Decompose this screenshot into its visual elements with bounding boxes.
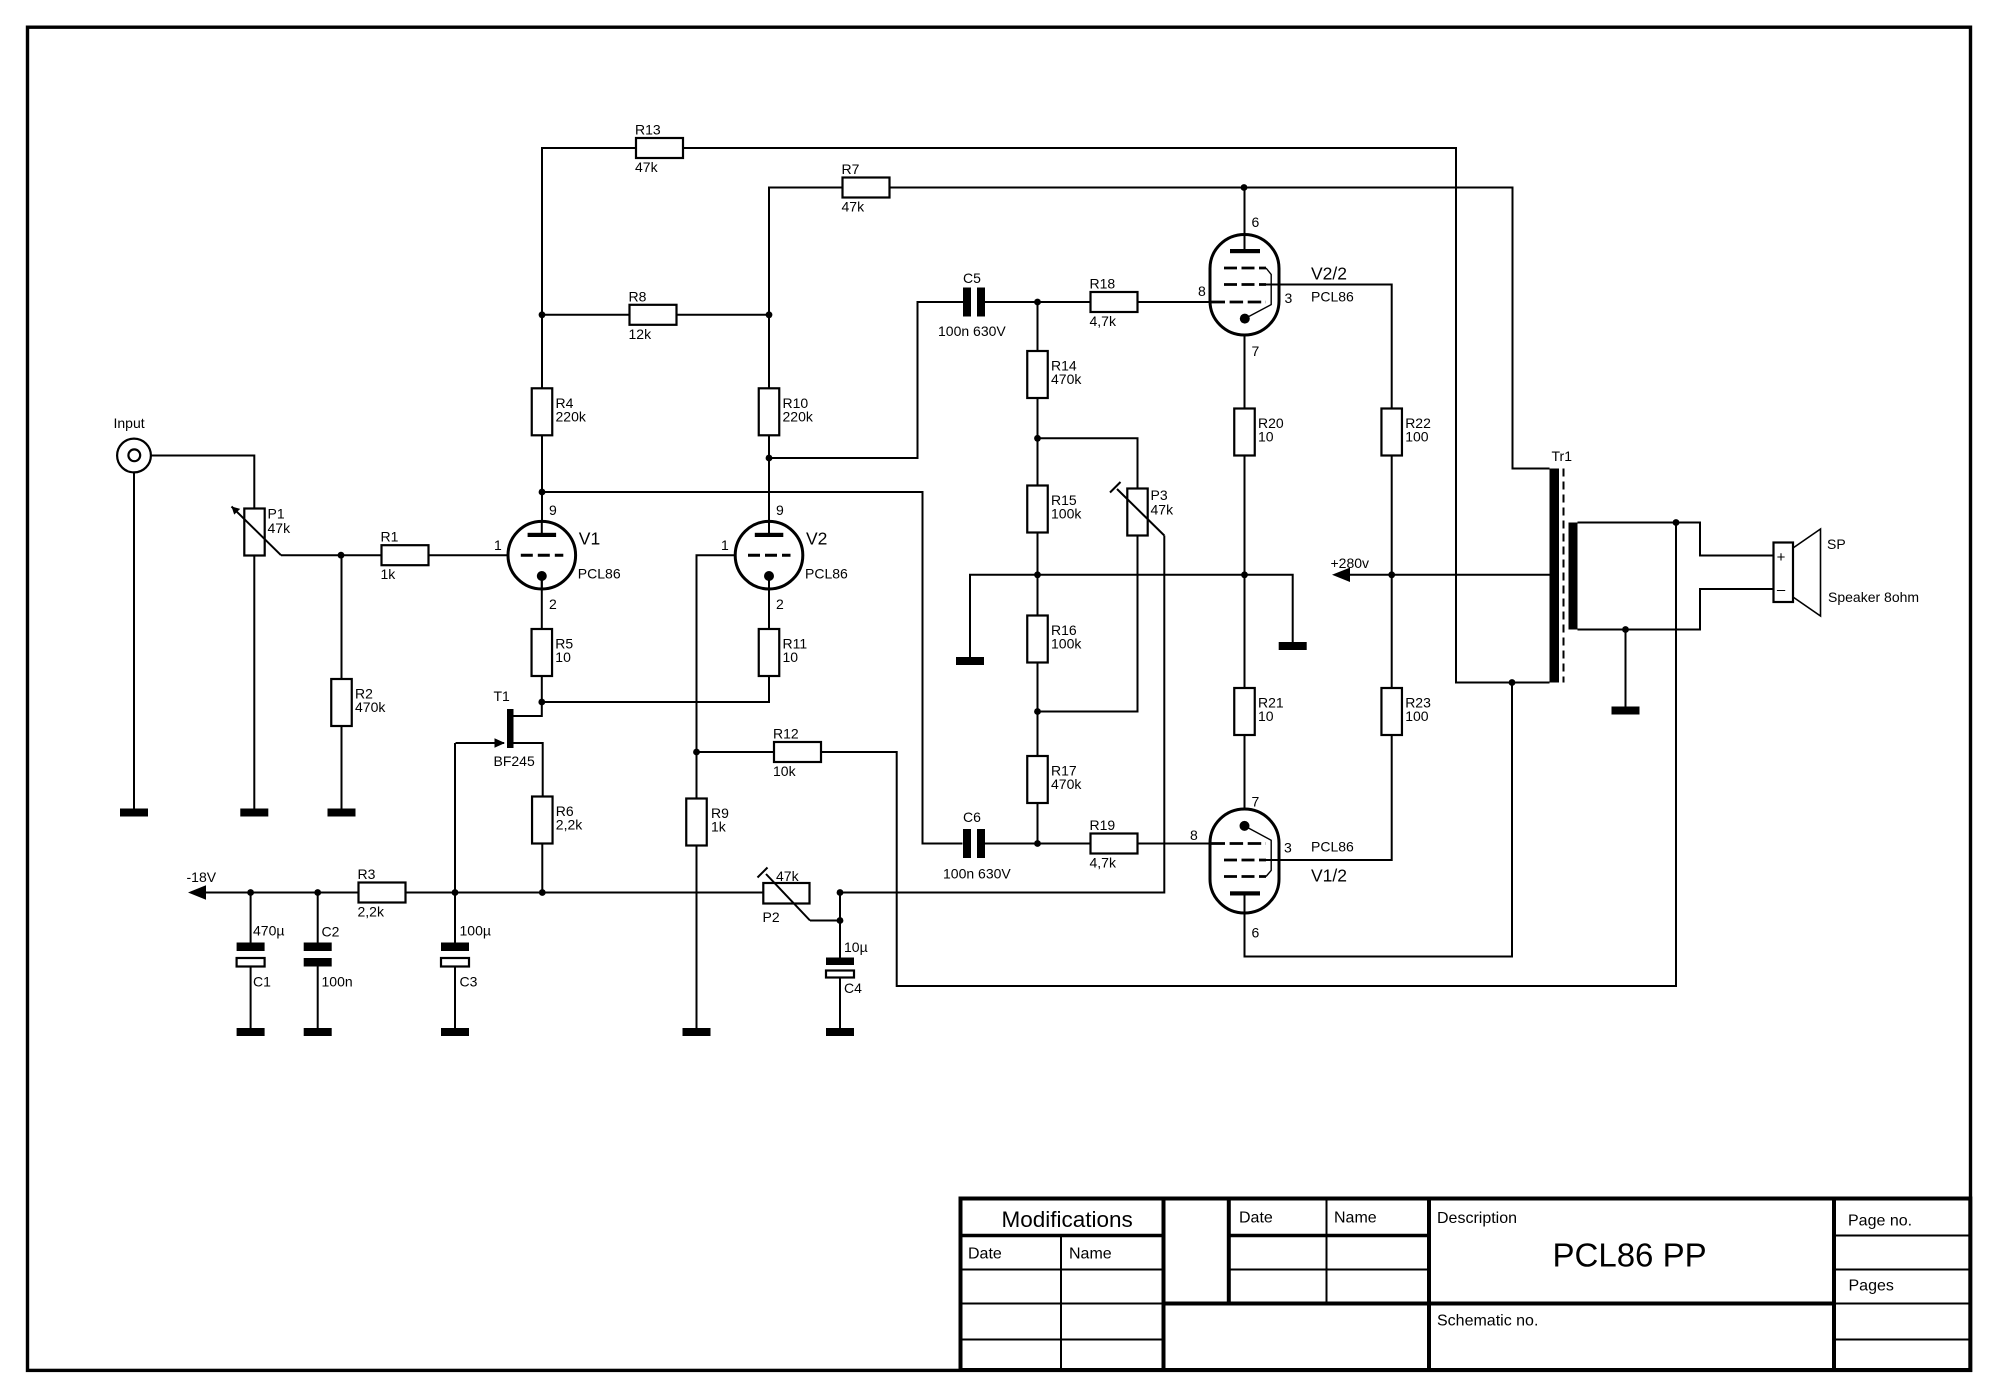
speaker SP — [1774, 529, 1920, 616]
triode V2 — [735, 521, 848, 589]
junction P2 wiper — [837, 917, 844, 924]
svg-text:100k: 100k — [1051, 636, 1082, 652]
wire V1/2 pin3 to R23 — [1266, 735, 1392, 860]
transformer Tr1 primary — [1550, 469, 1560, 683]
svg-text:2,2k: 2,2k — [556, 817, 583, 833]
P3 wiper — [1110, 482, 1164, 536]
svg-text:P2: P2 — [763, 909, 780, 925]
wire P1 wiper to junction — [281, 554, 341, 556]
wire R13 to R4 vertical — [542, 148, 637, 388]
wire ground rail right — [1038, 575, 1293, 642]
svg-text:10: 10 — [783, 649, 799, 665]
svg-text:SP: SP — [1827, 536, 1846, 552]
wire R6 bottom to -18V rail — [541, 844, 543, 893]
resistor R15 — [1027, 486, 1082, 533]
transformer Tr1 core — [1563, 469, 1565, 683]
wire C1 top lead — [250, 893, 252, 943]
svg-text:R19: R19 — [1090, 817, 1116, 833]
svg-text:Page no.: Page no. — [1848, 1213, 1912, 1230]
svg-text:Schematic no.: Schematic no. — [1437, 1313, 1538, 1330]
wire -18V rail left — [206, 892, 359, 894]
wire R2 bottom to ground — [341, 726, 343, 809]
pentode V2/2 — [1210, 235, 1354, 336]
junction mid ground rail — [1034, 571, 1041, 578]
wire V2/2 pin3 to R22 — [1266, 285, 1392, 409]
triode V1 — [508, 521, 621, 589]
svg-text:9: 9 — [776, 502, 784, 518]
svg-text:47k: 47k — [842, 199, 866, 215]
label C3 — [460, 923, 491, 990]
wire R13 right to Tr1 bottom — [683, 148, 1550, 683]
ground under C3 — [441, 1028, 469, 1036]
wire C5 to R18 — [985, 301, 1090, 303]
wire Tr1 secondary top — [1578, 523, 1774, 556]
wire +280v to Tr1 — [1350, 574, 1550, 576]
resistor R9 — [686, 799, 729, 846]
transformer Tr1 secondary — [1569, 523, 1578, 630]
svg-text:8: 8 — [1190, 827, 1198, 843]
wire C4 bottom lead — [839, 978, 841, 1029]
wire C1 bottom lead — [250, 967, 252, 1029]
svg-text:R1: R1 — [381, 529, 399, 545]
wire -18V rail right — [406, 892, 764, 894]
svg-text:10k: 10k — [773, 763, 797, 779]
potentiometer P2 — [763, 868, 810, 925]
svg-text:100µ: 100µ — [460, 923, 491, 939]
svg-text:100k: 100k — [1051, 506, 1082, 522]
wire R21 top to rail — [1244, 575, 1246, 688]
wire V2/2 pin6 lead — [1244, 188, 1246, 250]
resistor R22 — [1381, 409, 1431, 456]
svg-text:Name: Name — [1334, 1210, 1377, 1227]
svg-text:Input: Input — [114, 415, 145, 431]
junction secondary ground — [1622, 626, 1629, 633]
svg-text:6: 6 — [1252, 925, 1260, 941]
svg-text:R8: R8 — [629, 288, 647, 304]
resistor R18 — [1090, 276, 1138, 330]
svg-text:1: 1 — [721, 537, 729, 553]
wire R16 to R17 — [1037, 663, 1039, 757]
resistor R3 — [358, 866, 406, 920]
svg-text:Modifications: Modifications — [1002, 1207, 1133, 1232]
wire R18 to V2/2 pin8 — [1138, 301, 1212, 303]
wire V1 cathode to R5 — [541, 576, 543, 629]
svg-text:V1/2: V1/2 — [1311, 866, 1347, 886]
capacitor C2 — [304, 943, 332, 967]
wire secondary ground stub — [1625, 630, 1627, 707]
junction P1/R1/R2 — [338, 552, 345, 559]
wire C2 top lead — [317, 893, 319, 943]
svg-text:Date: Date — [968, 1246, 1002, 1263]
wire R5 to R11 bottoms — [542, 676, 769, 702]
P2 wiper — [758, 868, 841, 921]
wire P2 right to wiper — [839, 893, 841, 921]
title block — [961, 1199, 1971, 1371]
ground under secondary — [1612, 707, 1640, 715]
svg-text:470k: 470k — [1051, 776, 1082, 792]
svg-text:100: 100 — [1405, 708, 1429, 724]
ground under C2 — [304, 1028, 332, 1036]
svg-text:100n 630V: 100n 630V — [938, 323, 1006, 339]
junction R8 right — [766, 311, 773, 318]
svg-text:C2: C2 — [322, 924, 340, 940]
junction Tr1 bottom to V1/2 pin6 — [1509, 679, 1516, 686]
potentiometer P1 — [244, 506, 291, 556]
resistor R16 — [1027, 616, 1082, 663]
wire R9 bottom to ground — [696, 846, 698, 1029]
wire R12 left lead — [697, 751, 775, 753]
ground under R9 — [683, 1028, 711, 1036]
wire C3 bottom lead — [454, 967, 456, 1029]
ground under input — [120, 809, 148, 817]
svg-text:R18: R18 — [1090, 276, 1116, 292]
P1 wiper arrow — [232, 507, 282, 556]
wire R12 right to feedback line — [821, 523, 1676, 987]
svg-text:PCL86: PCL86 — [578, 566, 621, 582]
wire T1 gate riser — [454, 743, 456, 893]
junction C2 top — [314, 889, 321, 896]
svg-text:47k: 47k — [776, 868, 800, 884]
wire R19 to V1/2 pin8 — [1138, 843, 1212, 845]
svg-text:Date: Date — [1239, 1210, 1273, 1227]
resistor R13 — [635, 122, 683, 176]
svg-text:C3: C3 — [460, 974, 478, 990]
junction P3 top branch — [1034, 435, 1041, 442]
junction R14 top — [1034, 299, 1041, 306]
svg-text:R13: R13 — [635, 122, 661, 138]
capacitor C4 — [826, 939, 868, 996]
resistor R10 — [759, 388, 814, 435]
wire input to P1 top — [151, 456, 254, 509]
wire R8 right lead — [677, 314, 770, 316]
resistor R17 — [1027, 756, 1082, 803]
wire R17 to C6 line — [1037, 803, 1039, 844]
junction V1 anode branch — [539, 489, 546, 496]
junction V2 anode branch — [766, 455, 773, 462]
input connector J1 — [117, 439, 151, 473]
svg-text:470µ: 470µ — [253, 923, 284, 939]
svg-text:R3: R3 — [358, 866, 376, 882]
svg-text:C5: C5 — [963, 270, 981, 286]
label C2 — [322, 924, 353, 990]
wire R2 top lead — [341, 555, 343, 679]
svg-text:C6: C6 — [963, 809, 981, 825]
svg-text:Pages: Pages — [1849, 1278, 1894, 1295]
junction R8 left — [539, 311, 546, 318]
power +280v arrow — [1331, 555, 1370, 582]
wire R22 bottom to rail — [1391, 456, 1393, 575]
wire R7 right to Tr1 top — [890, 188, 1550, 469]
ground mid left — [956, 657, 984, 665]
wire V1/2 pin6 to Tr1 bottom — [1245, 683, 1513, 957]
junction P3 bottom branch — [1034, 708, 1041, 715]
svg-text:10µ: 10µ — [844, 939, 868, 955]
svg-text:2: 2 — [776, 596, 784, 612]
svg-text:Name: Name — [1069, 1246, 1112, 1263]
svg-text:100: 100 — [1405, 429, 1429, 445]
svg-text:8: 8 — [1198, 283, 1206, 299]
junction R17 bottom — [1034, 840, 1041, 847]
junction R22/R23 on +280v — [1388, 571, 1395, 578]
resistor R4 — [532, 388, 587, 435]
resistor R19 — [1090, 817, 1138, 871]
label C1 — [253, 923, 284, 990]
svg-text:Speaker 8ohm: Speaker 8ohm — [1828, 589, 1919, 605]
wire mid ground rail — [970, 575, 1038, 657]
capacitor C3 — [441, 943, 469, 967]
junction R6 bottom — [539, 889, 546, 896]
svg-text:V2/2: V2/2 — [1311, 264, 1347, 284]
svg-text:BF245: BF245 — [494, 753, 535, 769]
wire V2/2 pin7 to R20 — [1244, 335, 1246, 409]
svg-text:PCL86: PCL86 — [1311, 839, 1354, 855]
wire R14 to R15 — [1037, 398, 1039, 486]
svg-text:C4: C4 — [844, 980, 862, 996]
svg-text:Description: Description — [1437, 1210, 1517, 1227]
transistor T1 BF245 — [456, 688, 543, 797]
svg-text:PCL86: PCL86 — [805, 566, 848, 582]
wire P1 bottom to ground — [253, 556, 255, 809]
wire C5 junction to R14 — [1037, 302, 1039, 351]
junction R12 left — [693, 749, 700, 756]
svg-text:V1: V1 — [579, 529, 600, 549]
svg-text:1k: 1k — [711, 819, 727, 835]
svg-text:-18V: -18V — [187, 869, 217, 885]
svg-text:R7: R7 — [842, 161, 860, 177]
ground under C4 — [826, 1028, 854, 1036]
resistor R14 — [1027, 351, 1082, 398]
svg-text:7: 7 — [1252, 343, 1260, 359]
svg-text:+: + — [1777, 549, 1786, 566]
svg-text:PCL86: PCL86 — [1311, 289, 1354, 305]
resistor R7 — [842, 161, 890, 215]
svg-text:–: – — [1777, 582, 1786, 599]
junction C1 top — [247, 889, 254, 896]
svg-text:Tr1: Tr1 — [1552, 448, 1573, 464]
svg-text:12k: 12k — [629, 326, 653, 342]
wire V1/2 pin7 to R21 — [1244, 735, 1246, 809]
svg-text:220k: 220k — [783, 408, 814, 424]
wire R7 to R10 vertical — [769, 188, 843, 389]
svg-text:4,7k: 4,7k — [1090, 313, 1117, 329]
power -18V arrow — [187, 869, 217, 900]
capacitor C5 — [938, 270, 1006, 339]
wire P3 top lead — [1038, 438, 1138, 488]
ground under R2 — [328, 809, 356, 817]
junction V2/2 pin6 on R7 wire — [1241, 184, 1248, 191]
svg-text:2,2k: 2,2k — [358, 904, 385, 920]
wire R1 left — [341, 554, 382, 556]
pentode V1/2 — [1210, 809, 1354, 913]
wire input shield down — [133, 472, 135, 808]
svg-text:10: 10 — [1258, 708, 1274, 724]
resistor R1 — [381, 529, 429, 583]
wire C2 bottom lead — [317, 967, 319, 1029]
junction P2 right on rail — [837, 889, 844, 896]
wire V2 anode to C5 — [769, 302, 963, 458]
svg-text:100n 630V: 100n 630V — [943, 866, 1011, 882]
junction feedback takeoff — [1673, 519, 1680, 526]
svg-text:R12: R12 — [773, 726, 799, 742]
capacitor C1 — [237, 943, 265, 967]
wire R8 left lead — [542, 314, 630, 316]
svg-text:100n: 100n — [322, 974, 353, 990]
svg-text:470k: 470k — [1051, 371, 1082, 387]
junction T1 drain — [538, 699, 545, 706]
resistor R23 — [1381, 688, 1431, 735]
junction C3/T1 gate — [452, 889, 459, 896]
svg-text:10: 10 — [1258, 429, 1274, 445]
svg-text:+280v: +280v — [1331, 555, 1370, 571]
svg-text:1: 1 — [494, 537, 502, 553]
resistor R20 — [1234, 409, 1284, 456]
wire C4 top lead — [839, 921, 841, 958]
svg-text:220k: 220k — [556, 408, 587, 424]
wire R15 to R16 — [1037, 533, 1039, 616]
wire R20 bottom to rail — [1244, 456, 1246, 575]
svg-text:47k: 47k — [268, 520, 292, 536]
wire P3 bottom lead — [1038, 536, 1138, 712]
svg-text:7: 7 — [1252, 794, 1260, 810]
svg-text:3: 3 — [1285, 290, 1293, 306]
wire R1 right to V1 grid — [429, 554, 509, 556]
wire R23 top to rail — [1391, 575, 1393, 688]
wire R10 bottom to V2 anode — [768, 435, 770, 521]
resistor R5 — [532, 629, 574, 676]
wire C6 to R19 — [985, 843, 1090, 845]
resistor R11 — [759, 629, 808, 676]
svg-text:470k: 470k — [355, 699, 386, 715]
svg-text:T1: T1 — [494, 688, 511, 704]
ground under C1 — [237, 1028, 265, 1036]
svg-text:2: 2 — [549, 596, 557, 612]
svg-text:4,7k: 4,7k — [1090, 855, 1117, 871]
wire P3 wiper down to rail — [840, 536, 1164, 893]
resistor R21 — [1234, 688, 1284, 735]
ground under P1 — [240, 809, 268, 817]
capacitor C6 — [943, 809, 1011, 882]
svg-text:47k: 47k — [635, 159, 659, 175]
resistor R2 — [331, 679, 386, 726]
wire V2 cathode to R11 — [768, 576, 770, 629]
wire Tr1 secondary bottom — [1578, 589, 1774, 630]
wire C3 top lead — [454, 893, 456, 943]
wire V2 grid to R9 — [697, 555, 736, 798]
resistor R8 — [629, 288, 677, 342]
wire V1 anode to C6 — [542, 492, 963, 844]
svg-text:10: 10 — [555, 649, 571, 665]
resistor R12 — [773, 726, 821, 780]
junction R20/R21 on ground rail — [1241, 571, 1248, 578]
resistor R6 — [532, 797, 583, 844]
svg-text:V2: V2 — [806, 529, 827, 549]
svg-text:3: 3 — [1284, 840, 1292, 856]
potentiometer P3 — [1127, 487, 1174, 536]
svg-text:47k: 47k — [1151, 502, 1175, 518]
svg-text:9: 9 — [549, 502, 557, 518]
svg-text:1k: 1k — [381, 566, 397, 582]
svg-text:6: 6 — [1252, 214, 1260, 230]
ground mid right — [1279, 642, 1307, 650]
svg-text:C1: C1 — [253, 974, 271, 990]
svg-text:PCL86 PP: PCL86 PP — [1553, 1237, 1707, 1274]
wire R4 bottom to V1 anode — [541, 435, 543, 521]
